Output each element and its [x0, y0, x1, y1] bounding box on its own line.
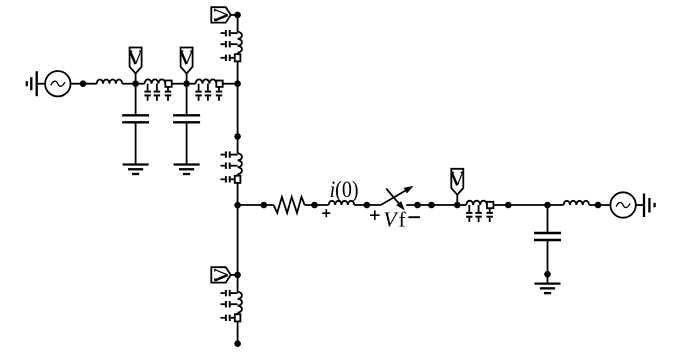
svg-text:i(0): i(0) [330, 177, 359, 203]
svg-text:Vf: Vf [383, 208, 406, 232]
